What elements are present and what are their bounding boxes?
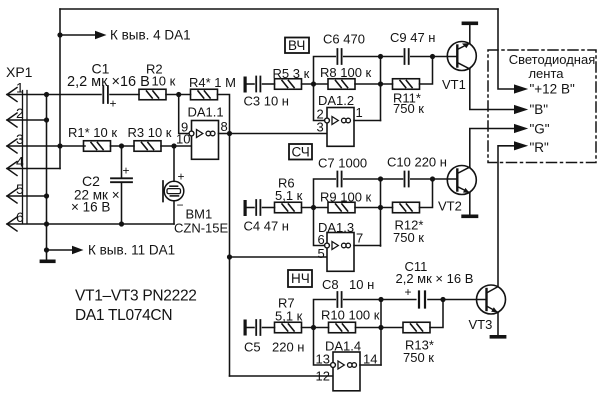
label box VCh: [285, 38, 309, 54]
node vyv11: [44, 247, 49, 252]
wire C3 to R5: [263, 83, 275, 85]
arrow B: [514, 105, 528, 114]
svg-text:2,2 мк ×16 В: 2,2 мк ×16 В: [67, 74, 150, 90]
svg-text:14: 14: [363, 352, 377, 367]
resistor R6: [275, 202, 302, 213]
wire node A3 up to C8 row: [314, 300, 336, 328]
wire R4 feedback to output node: [218, 95, 230, 134]
resistor R7: [275, 322, 302, 333]
svg-text:R3 10 к: R3 10 к: [128, 125, 172, 140]
arrow R: [514, 141, 528, 150]
svg-text:6: 6: [16, 209, 24, 225]
svg-text:1: 1: [16, 80, 24, 96]
resistor R2: [139, 89, 166, 100]
svg-text:К выв. 4 DA1: К выв. 4 DA1: [110, 28, 191, 43]
op-amp U DA1.2: [325, 108, 354, 147]
node DA1.1 output: [227, 131, 232, 136]
op-amp U DA1.4: [331, 352, 360, 391]
svg-text:1: 1: [356, 105, 363, 120]
capacitor C6: [337, 49, 341, 64]
wire R5 to R8: [302, 83, 328, 85]
wire C11 row: [381, 299, 416, 301]
node B1: [378, 81, 383, 86]
transistor Q VT3: [477, 285, 506, 314]
arrow to DA1 pin 11 head: [72, 246, 84, 254]
capacitor C10: [405, 172, 409, 187]
wire C4 to R6: [263, 207, 275, 209]
label box NCh: [288, 270, 312, 287]
svg-text:10 н: 10 н: [349, 277, 374, 292]
node +12V pin3 row: [57, 143, 62, 148]
svg-text:"+12 В": "+12 В": [530, 82, 575, 97]
node B2 top: [378, 176, 383, 181]
transistor Q VT1: [447, 42, 476, 71]
svg-text:VT3: VT3: [469, 317, 493, 332]
wire XP1 pin 3 row to R1: [7, 145, 85, 147]
wire R12 right up to C10 out: [420, 179, 433, 208]
ground bar below VT3: [490, 335, 507, 339]
svg-text:R10 100 к: R10 100 к: [321, 308, 380, 323]
resistor R8: [328, 79, 355, 90]
wire VT1 collector to B line: [470, 69, 514, 110]
capacitor C4: [256, 200, 260, 215]
wire tap to DA1 pin 4: [60, 34, 96, 36]
svg-text:CZN-15E: CZN-15E: [174, 221, 229, 236]
svg-text:C8: C8: [322, 277, 339, 292]
resistor R10: [329, 322, 356, 333]
svg-text:VT1–VT3 PN2222: VT1–VT3 PN2222: [75, 288, 197, 305]
capacitor C5: [256, 320, 260, 335]
svg-text:ВЧ: ВЧ: [288, 38, 305, 53]
op-amp U DA1.3: [325, 233, 354, 272]
wire R6 to R9: [302, 207, 328, 209]
svg-text:7: 7: [356, 231, 363, 246]
wire bus to DA1.3 pin 5: [230, 256, 328, 258]
transistor Q VT2: [447, 166, 476, 195]
svg-text:C4 47 н: C4 47 н: [244, 219, 289, 234]
node R1-R3 C2: [119, 143, 124, 148]
svg-text:Светодиодная: Светодиодная: [509, 52, 596, 67]
connector XP1 pin 3 arrow: [7, 139, 17, 153]
wire R7 to R10: [302, 327, 329, 329]
wire C2 bottom to ground row: [121, 183, 123, 225]
label box SCh: [289, 144, 312, 160]
wire XP1 pin 5 row: [7, 195, 47, 197]
node A2: [311, 205, 316, 210]
wire B3 riser: [380, 300, 382, 366]
wire R1 to R3: [111, 145, 135, 147]
wire C11 to VT3 base: [428, 299, 487, 301]
wire C9 row: [381, 56, 403, 58]
connector XP1 pin 1 arrow: [7, 88, 17, 102]
wire node A2 down to DA1.3 pin 6: [314, 208, 325, 246]
ground symbol bottom left: [40, 260, 56, 264]
wire DA1.4 output pin 14: [360, 364, 381, 366]
svg-text:R9 100 к: R9 100 к: [320, 190, 372, 205]
capacitor C8: [337, 292, 341, 307]
wire VT1 emitter to ground bar: [469, 25, 471, 43]
wire C9 to VT1 base: [411, 56, 458, 58]
svg-text:VT1: VT1: [442, 77, 466, 92]
wire reference bus vertical: [229, 134, 231, 377]
svg-text:5: 5: [16, 181, 24, 197]
node C2 ground: [119, 221, 124, 226]
node C10 out: [430, 176, 435, 181]
wire C6 to node B1 top: [344, 56, 381, 58]
wire R8 to R11: [355, 83, 393, 85]
svg-text:13: 13: [316, 352, 330, 367]
resistor R3: [134, 141, 161, 152]
wire XP1 pin 2 row: [7, 119, 47, 121]
wire +12V top rail: [60, 8, 498, 10]
wire B2 riser: [380, 179, 382, 246]
wire DA1.1 output to bus: [219, 133, 230, 135]
wire +12V left vertical to XP1 pins 3,4: [59, 9, 61, 169]
wire C10 to VT2 base: [411, 178, 458, 180]
svg-text:3: 3: [317, 120, 324, 135]
svg-text:+: +: [178, 170, 185, 184]
svg-text:750 к: 750 к: [393, 101, 424, 116]
wire VT2 emitter to ground: [469, 193, 471, 215]
wire VT2 collector to G line: [470, 129, 514, 168]
wire C5 to R7: [263, 327, 275, 329]
wire BM1 bottom to ground row: [173, 201, 175, 224]
wire XP1 pin 1 row to C1: [7, 94, 101, 96]
svg-text:C9 47 н: C9 47 н: [390, 30, 435, 45]
connector XP1 pin 5 arrow: [7, 189, 17, 203]
svg-text:R1* 10 к: R1* 10 к: [68, 125, 117, 140]
wire R2-R4 node down to DA1.1 pin 9: [179, 95, 189, 134]
wire bar to C3: [247, 83, 254, 85]
wire R9 to R12: [355, 207, 393, 209]
node C9 out: [430, 54, 435, 59]
resistor R4: [191, 89, 218, 100]
svg-text:−: −: [177, 198, 184, 212]
wire C7 to node B2 top: [344, 178, 381, 180]
svg-text:"R": "R": [530, 140, 550, 155]
svg-text:6: 6: [318, 232, 325, 247]
svg-text:8: 8: [221, 119, 228, 134]
wire C8 to node B3 top: [344, 299, 381, 301]
wire VT3 collector to R line: [498, 146, 514, 287]
node C11 out: [440, 297, 445, 302]
node B3: [378, 325, 383, 330]
node pin5-gnd: [44, 193, 49, 198]
svg-text:R4* 1 М: R4* 1 М: [189, 75, 236, 90]
svg-text:C6 470: C6 470: [323, 32, 365, 47]
svg-text:5,1 к: 5,1 к: [275, 188, 303, 203]
wire arrow to DA1 pin 11: [47, 249, 73, 251]
microphone BM1: [163, 181, 184, 202]
svg-text:× 16 В: × 16 В: [71, 200, 110, 215]
svg-text:C10 220 н: C10 220 н: [387, 155, 447, 170]
resistor R11: [393, 79, 420, 90]
capacitor C2: [111, 178, 132, 182]
resistor R9: [328, 202, 355, 213]
svg-text:+: +: [405, 285, 412, 299]
node B1 top: [378, 54, 383, 59]
capacitor C7: [337, 172, 341, 187]
svg-text:5,1 к: 5,1 к: [275, 309, 303, 324]
svg-text:DA1.1: DA1.1: [188, 105, 224, 120]
terminal bar C4: [244, 200, 247, 216]
wire R10 to R13: [356, 327, 403, 329]
wire node A3 down to DA1.4 pin 13: [314, 328, 331, 366]
terminal bar C5: [244, 320, 247, 336]
node R3-BM1: [171, 143, 176, 148]
node pin2-gnd: [44, 117, 49, 122]
node pin6-gnd: [44, 221, 49, 226]
svg-text:750 к: 750 к: [403, 350, 434, 365]
capacitor C3: [256, 77, 260, 92]
wire bar to C5: [247, 327, 254, 329]
node pin1-gnd: [44, 92, 49, 97]
node B2: [378, 205, 383, 210]
svg-text:220 н: 220 н: [272, 340, 304, 355]
capacitor C9: [405, 49, 409, 64]
resistor R5: [275, 79, 302, 90]
svg-text:R8 100 к: R8 100 к: [320, 65, 372, 80]
connector XP1 pin 4 arrow: [7, 162, 17, 176]
node A3: [311, 325, 316, 330]
wire bus to DA1.4 pin 12: [230, 375, 334, 377]
svg-text:750 к: 750 к: [393, 230, 424, 245]
svg-text:лента: лента: [528, 66, 564, 81]
wire C2 top: [121, 146, 123, 178]
node R2-R4 junction: [176, 92, 181, 97]
wire node A1 down to DA1.2 pin 2: [314, 84, 325, 121]
svg-text:2,2 мк × 16 В: 2,2 мк × 16 В: [396, 271, 474, 286]
arrow G: [514, 124, 528, 133]
LED strip box: [488, 50, 596, 163]
connector XP1 body: [23, 91, 28, 224]
wire R11 right up to C9 out: [420, 57, 433, 85]
svg-text:4: 4: [16, 154, 24, 170]
node +12V tap: [57, 32, 62, 37]
svg-text:DA1 TL074CN: DA1 TL074CN: [75, 307, 172, 324]
svg-text:+: +: [123, 164, 130, 178]
ground bus vertical: [46, 95, 48, 260]
connector XP1 pin 2 arrow: [7, 113, 17, 127]
svg-text:5: 5: [318, 246, 325, 261]
svg-text:10: 10: [176, 132, 190, 147]
arrow to DA1 pin 4 head: [95, 31, 107, 39]
svg-text:"G": "G": [530, 122, 550, 137]
svg-text:R5 3 к: R5 3 к: [273, 66, 310, 81]
ground bar below VT2: [461, 215, 478, 219]
resistor R1: [84, 141, 111, 152]
svg-text:BM1: BM1: [186, 207, 213, 222]
connector XP1 pin 6 arrow: [7, 217, 17, 231]
wire DA1.3 output pin 7: [354, 245, 381, 247]
node B3 top: [378, 297, 383, 302]
svg-text:3: 3: [16, 131, 24, 147]
wire XP1 pin 4 row: [7, 168, 27, 170]
wire B1 riser: [380, 57, 382, 121]
wire VT3 emitter to ground: [497, 312, 499, 335]
node A1: [311, 81, 316, 86]
resistor R13: [403, 322, 430, 333]
svg-text:C7 1000: C7 1000: [318, 156, 367, 171]
wire pin4 stub: [27, 168, 60, 170]
svg-text:+: +: [110, 97, 117, 111]
capacitor C11: [419, 292, 425, 308]
terminal bar C3: [244, 77, 247, 93]
svg-text:2: 2: [16, 105, 24, 121]
svg-text:VT2: VT2: [438, 199, 462, 214]
resistor R12: [393, 202, 420, 213]
wire R13 right up to C11 out: [430, 300, 443, 328]
svg-text:К выв. 11 DA1: К выв. 11 DA1: [88, 243, 175, 258]
wire node A2 up to C7 row: [314, 179, 336, 208]
svg-text:СЧ: СЧ: [292, 145, 310, 160]
wire C1 to R2: [110, 94, 139, 96]
svg-text:C5: C5: [244, 340, 261, 355]
svg-text:"B": "B": [530, 102, 549, 117]
wire C10 row: [381, 178, 403, 180]
svg-text:НЧ: НЧ: [291, 271, 310, 286]
op-amp U DA1.1: [189, 121, 218, 160]
wire bar to C4: [247, 207, 254, 209]
wire XP1 pin 6 / ground row to BM1: [7, 223, 174, 225]
svg-text:DA1.4: DA1.4: [325, 339, 361, 354]
wire bus to DA1.2 pin 3: [230, 133, 328, 135]
node bus pin5: [227, 254, 232, 259]
svg-text:XP1: XP1: [6, 64, 33, 80]
arrow +12V: [514, 84, 528, 93]
wire R2 to R4: [166, 94, 191, 96]
wire +12V right drop into LED box: [498, 9, 514, 89]
ground bar above VT1: [462, 22, 479, 26]
svg-text:10 к: 10 к: [152, 74, 176, 89]
wire node A1 up to C6 row: [314, 57, 336, 85]
wire DA1.2 output pin 1: [354, 120, 381, 122]
wire BM1 top: [173, 146, 175, 181]
wire R3 to DA1.1 pin 10: [161, 145, 192, 147]
svg-text:C3 10 н: C3 10 н: [244, 94, 289, 109]
capacitor C1: [103, 86, 108, 103]
svg-text:12: 12: [316, 369, 330, 384]
